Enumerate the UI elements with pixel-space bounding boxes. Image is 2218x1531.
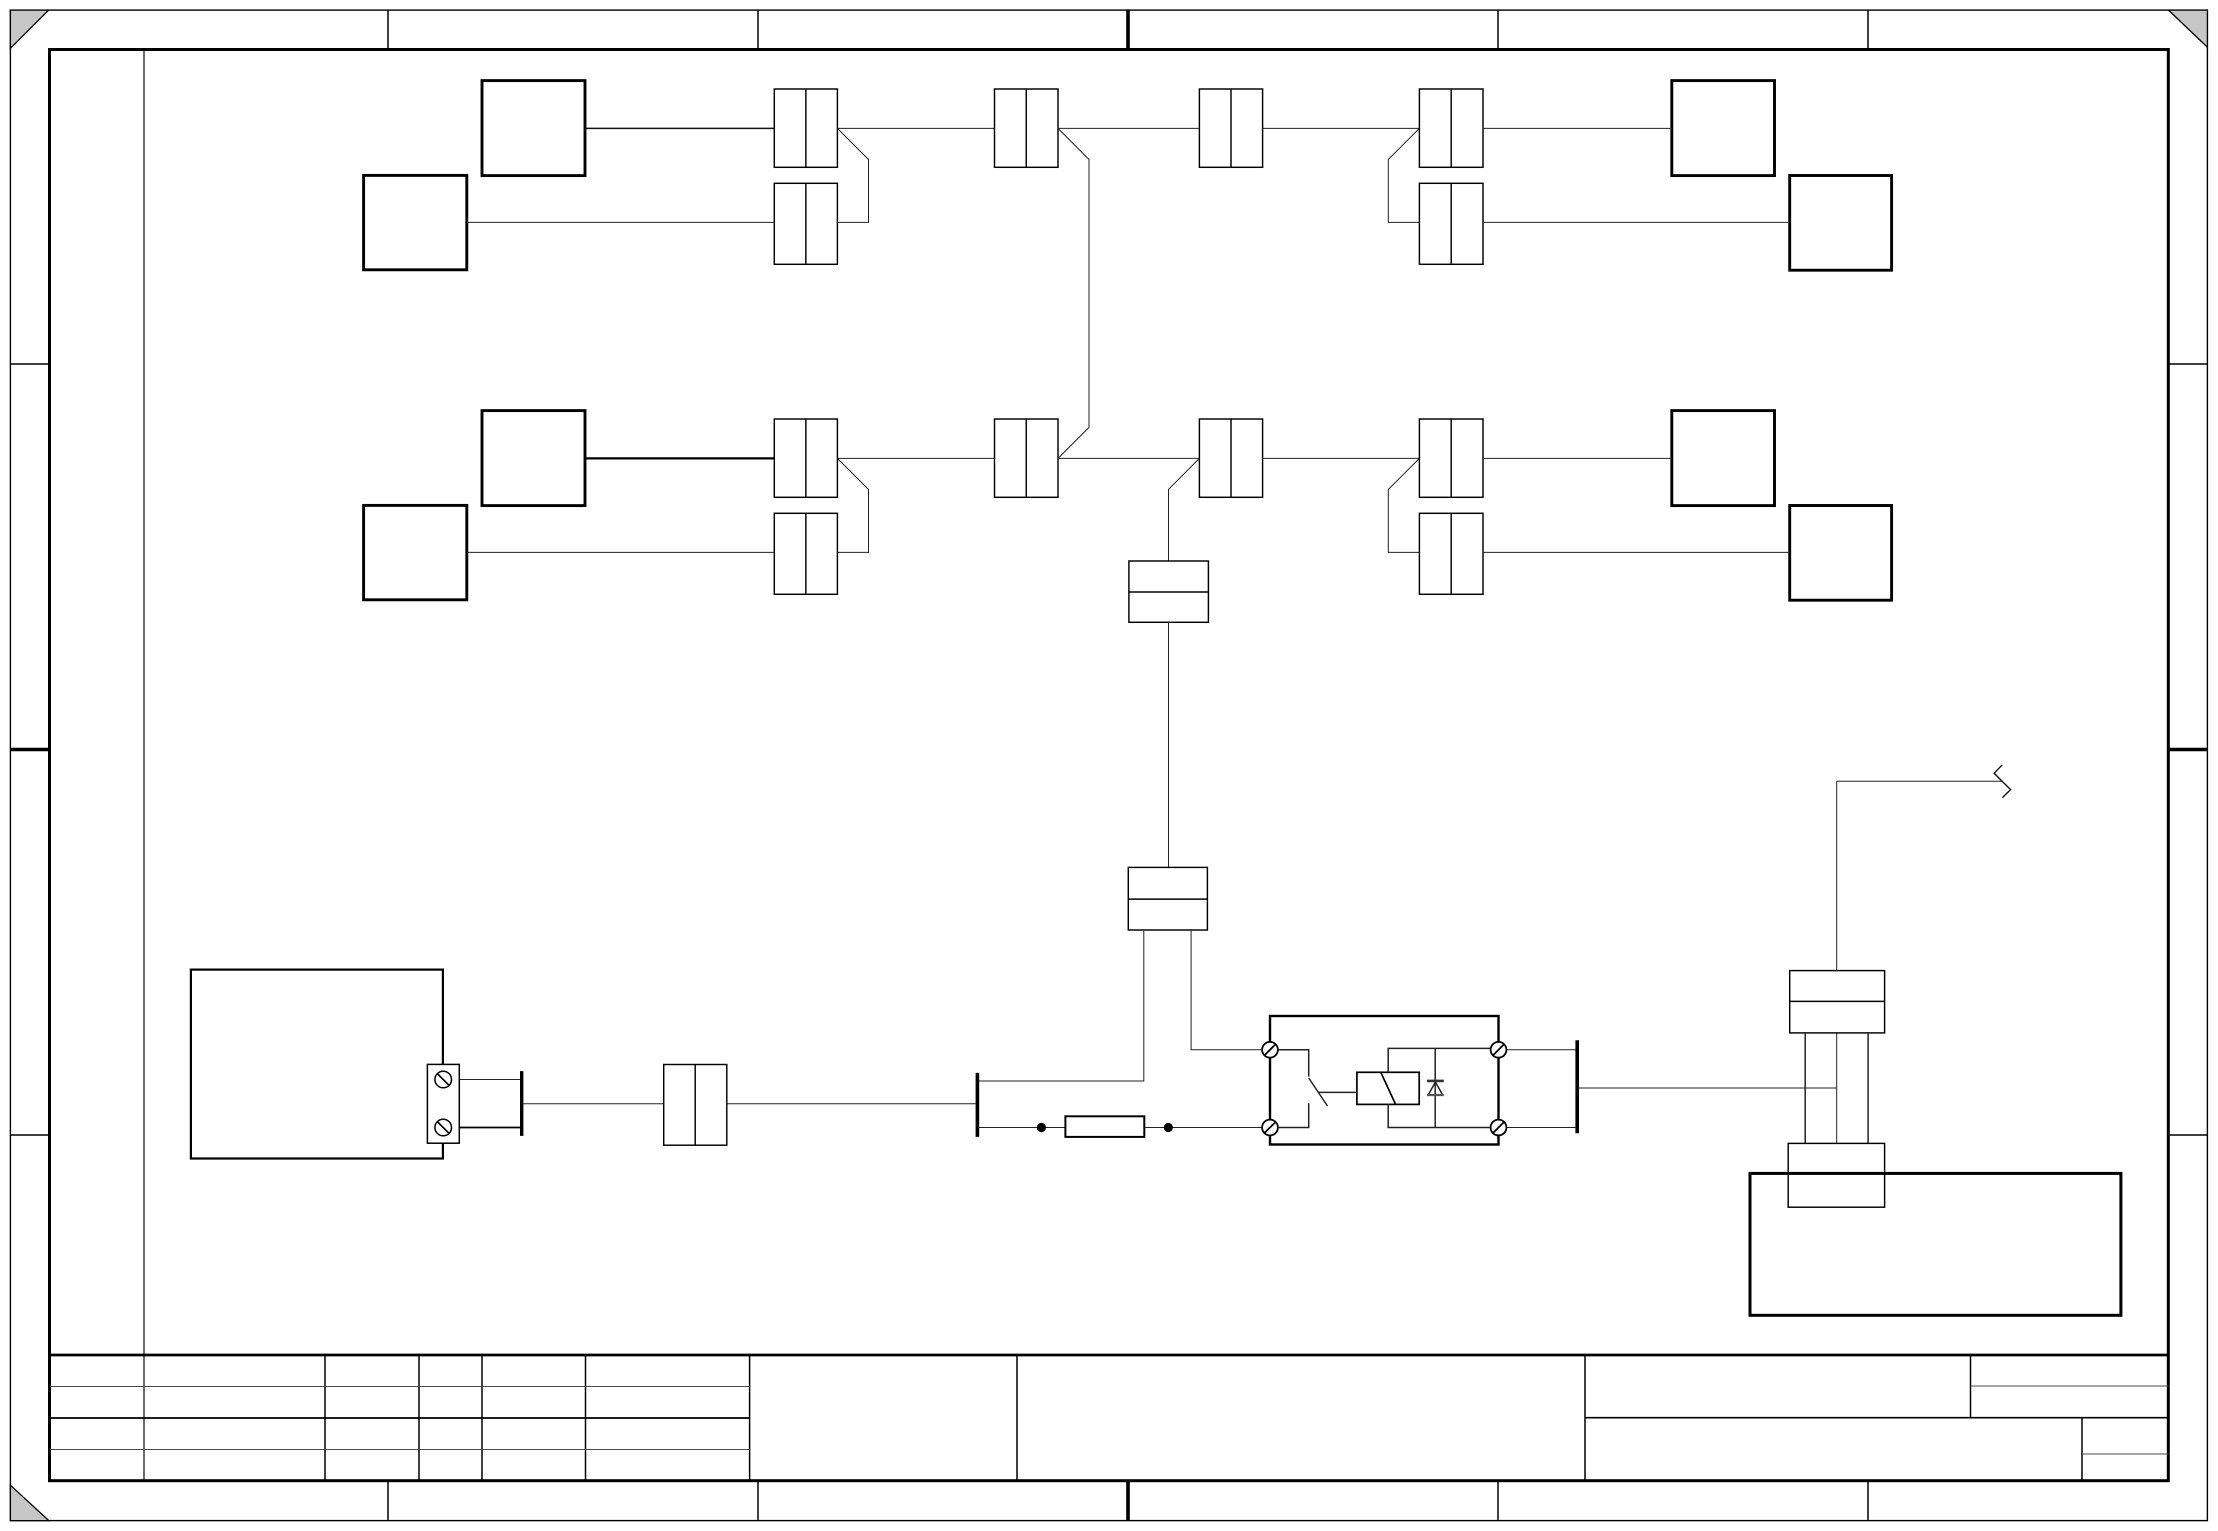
fuse FU1 — [1065, 1116, 1144, 1137]
grid tick top 3 — [1497, 10, 1499, 49]
wire relay right bottom to bus T3 — [1506, 1127, 1577, 1129]
wire X2.2 to K2.3 — [1263, 457, 1420, 459]
wire K2.4 to A2.4 — [1483, 551, 1790, 553]
wire A1.1 to K1.1 — [585, 127, 774, 129]
coupler K5 — [664, 1065, 727, 1146]
grid tick bottom 2 — [757, 1481, 759, 1521]
diode branch vertical — [1434, 1048, 1436, 1127]
coil top lead — [1388, 1048, 1490, 1072]
wire K1.1 to X1.1 — [837, 127, 994, 129]
title block row line 2 — [50, 1417, 750, 1419]
title block right upper divider — [1970, 1355, 1972, 1418]
title block right lower thin row — [2082, 1453, 2168, 1455]
wire X5.2 to bus T1 — [459, 1127, 520, 1129]
line coupler X2.2 — [1199, 419, 1262, 497]
line coupler X1.1 — [995, 89, 1059, 167]
feed line through mast — [1836, 1033, 1838, 1144]
relay coil — [1357, 1072, 1419, 1104]
title block right lower divider — [2081, 1418, 2083, 1481]
wire K5 to bus T2 — [727, 1103, 978, 1105]
title block top edge — [50, 1354, 2169, 1357]
junction dot left of fuse — [1037, 1123, 1046, 1132]
coupler K1.2 — [774, 183, 837, 264]
relay terminal right bottom — [1491, 1120, 1507, 1136]
wire X5.1 to bus T1 — [459, 1079, 520, 1081]
corner trim triangle bottom-left — [10, 1485, 48, 1520]
title block divider v6 — [749, 1355, 751, 1481]
coupler K2.4 — [1419, 513, 1483, 594]
grid tick left 1 — [10, 363, 49, 365]
wire X1.2 to K1.3 — [1263, 127, 1420, 129]
device box A1.1 — [482, 81, 585, 176]
switch upper stub — [1278, 1050, 1309, 1077]
bus bar T1 — [520, 1071, 523, 1136]
centering mark right — [2168, 748, 2207, 752]
surge protector F2 — [1128, 867, 1207, 930]
coil bottom lead — [1388, 1104, 1490, 1127]
device box A2.3 — [1672, 411, 1775, 506]
off-sheet zigzag arrow — [1837, 780, 2002, 782]
mast base box — [1788, 1143, 1884, 1207]
title block right row line — [1585, 1417, 2168, 1419]
wire T2 to fuse FU1 — [977, 1127, 1065, 1129]
corner trim triangle top-right — [2169, 10, 2208, 47]
device box A1.4 — [1790, 176, 1892, 271]
junction dot right of fuse — [1164, 1123, 1173, 1132]
centering mark left — [10, 748, 49, 752]
device box A2.4 — [1790, 506, 1892, 601]
coupler K1.1 — [774, 89, 837, 167]
wire F2 left tail to bus T2 — [977, 930, 1143, 1081]
grid tick top 1 — [387, 10, 389, 49]
diode anode bar — [1427, 1094, 1444, 1096]
wire relay right top to bus T3 — [1506, 1049, 1577, 1051]
wire X2.1 to X2.2 — [1058, 457, 1199, 459]
line coupler X2.1 — [995, 419, 1059, 497]
wire K1.3 to A1.3 — [1483, 127, 1672, 129]
matching unit upper box — [1790, 971, 1885, 1033]
grid tick bottom 4 — [1867, 1481, 1869, 1521]
centering mark top — [1126, 10, 1130, 49]
grid tick bottom 1 — [387, 1481, 389, 1521]
wire jog K1.3 to K1.4 — [1388, 128, 1419, 222]
surge protector F1 — [1129, 561, 1209, 622]
coupler K2.2 — [774, 513, 837, 594]
inter-row link X1.1 to X2.1 — [1058, 128, 1089, 458]
equipment box A6 — [1750, 1173, 2121, 1315]
wire T3 to antenna feed — [1577, 1087, 1837, 1089]
wire F1 to F2 — [1168, 622, 1170, 867]
wire jog K2.3 to K2.4 — [1388, 458, 1419, 552]
wire jog K2.1 to K2.2 — [837, 458, 868, 552]
device box A2.1 — [482, 411, 585, 506]
wire T1 to coupler K5 — [522, 1103, 664, 1105]
centering mark bottom — [1126, 1481, 1130, 1521]
diode cathode bar — [1427, 1080, 1444, 1083]
title block row line 3 (thin) — [50, 1449, 750, 1451]
title block divider v5 — [585, 1355, 587, 1481]
wire X1.1 to X1.2 — [1058, 127, 1199, 129]
diode triangle — [1428, 1082, 1443, 1095]
grid tick top 2 — [757, 10, 759, 49]
wire K2.1 to X2.1 — [837, 457, 994, 459]
terminal screw X5.2 — [435, 1119, 452, 1136]
mast left leg — [1804, 1033, 1806, 1144]
coupler K1.3 — [1419, 89, 1483, 167]
wire F2 right tail to relay terminal — [1191, 930, 1262, 1050]
title block divider v2 — [324, 1355, 326, 1481]
wire A1.2 to K1.2 — [467, 221, 775, 223]
line coupler X1.2 — [1199, 89, 1262, 167]
wire A2.2 to K2.2 — [467, 551, 775, 553]
wire jog K1.1 to K1.2 — [837, 128, 868, 222]
wire A2.1 to K2.1 — [585, 457, 774, 459]
title block right upper thin row — [1971, 1385, 2169, 1387]
title block divider v7 — [1016, 1355, 1018, 1481]
wire K1.4 to A1.4 — [1483, 221, 1790, 223]
terminal screw X5.1 — [435, 1071, 452, 1088]
controller box A5 — [191, 970, 443, 1159]
relay terminal left bottom — [1262, 1120, 1278, 1136]
grid tick bottom 3 — [1497, 1481, 1499, 1521]
title block divider v8 — [1584, 1355, 1586, 1481]
title block left column divider — [143, 50, 145, 1481]
relay terminal right top — [1491, 1042, 1507, 1058]
mast right leg — [1867, 1033, 1869, 1144]
device box A1.3 — [1672, 81, 1775, 176]
terminal block X5 — [427, 1064, 459, 1143]
grid tick right 1 — [2168, 363, 2207, 365]
title block divider v4 — [481, 1355, 483, 1481]
device box A2.2 — [364, 505, 467, 599]
bus bar T3 — [1575, 1040, 1579, 1133]
title block divider v3 — [418, 1355, 420, 1481]
tap X2.2 down to F1 — [1169, 458, 1200, 561]
bus bar T2 — [976, 1073, 980, 1137]
corner trim triangle top-left — [10, 10, 48, 48]
relay terminal left top — [1262, 1042, 1278, 1058]
grid tick right 2 — [2168, 1134, 2207, 1136]
device box A1.2 — [364, 175, 467, 269]
grid tick left 2 — [10, 1134, 49, 1136]
feed line riser — [1836, 781, 1838, 970]
wire fuse FU1 to relay terminal — [1144, 1127, 1262, 1129]
wire K2.3 to A2.3 — [1483, 457, 1672, 459]
grid tick top 4 — [1867, 10, 1869, 49]
switch lower stub — [1278, 1103, 1309, 1127]
coupler K2.3 — [1419, 419, 1483, 497]
title block row line 1 (thin) — [50, 1386, 750, 1388]
switch actuator link — [1319, 1091, 1357, 1093]
coupler K2.1 — [774, 419, 837, 497]
coupler K1.4 — [1419, 183, 1483, 264]
relay module box K6 — [1270, 1016, 1499, 1145]
switch blade — [1309, 1078, 1328, 1106]
